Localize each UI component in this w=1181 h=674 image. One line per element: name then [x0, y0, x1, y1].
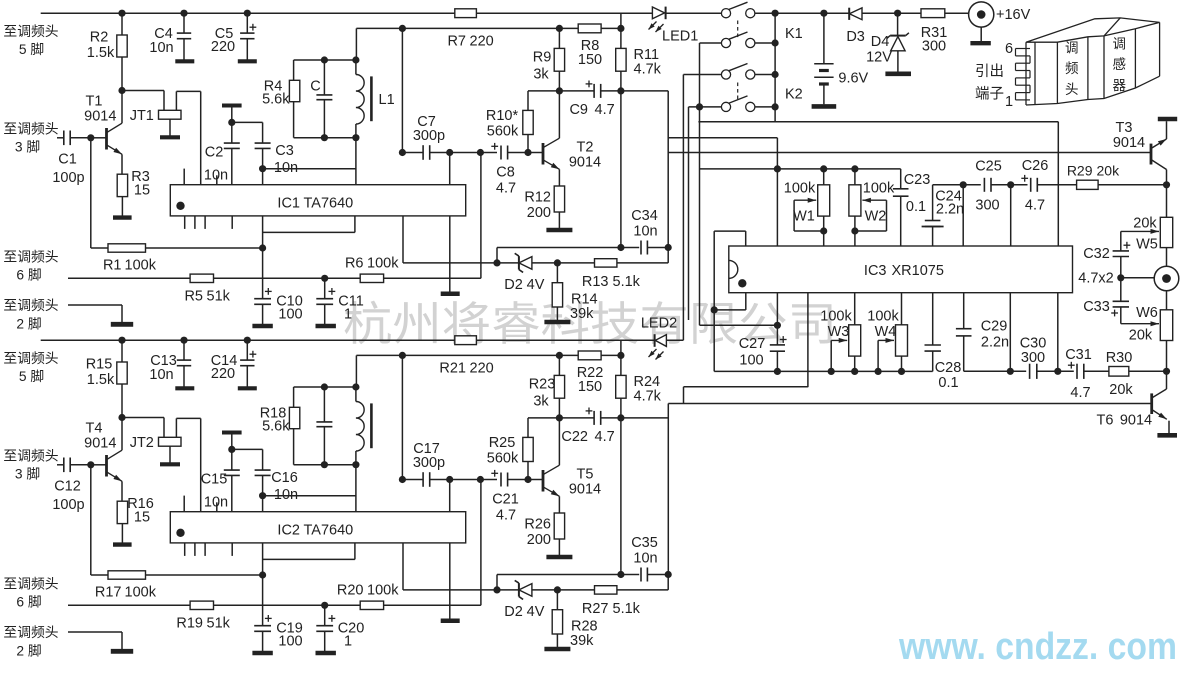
resistor R26 — [554, 513, 564, 539]
svg-text:IC1: IC1 — [277, 195, 300, 211]
junction — [1054, 368, 1061, 375]
junction base T2 — [524, 149, 531, 156]
svg-text:220: 220 — [211, 366, 235, 382]
svg-text:调: 调 — [1065, 41, 1079, 56]
resistor R11 — [620, 13, 622, 28]
junction IF in — [399, 476, 406, 483]
op-amp IC3 — [729, 246, 1073, 293]
svg-text:300p: 300p — [413, 128, 445, 144]
svg-text:5 脚: 5 脚 — [19, 42, 44, 57]
inductor L1 — [355, 60, 357, 75]
resistor R16 — [117, 501, 127, 523]
capacitor C3 — [232, 121, 263, 123]
svg-text:9014: 9014 — [1120, 413, 1152, 429]
svg-text:至调频头: 至调频头 — [3, 577, 58, 592]
svg-text:100k: 100k — [863, 181, 895, 197]
junction collector node — [118, 87, 125, 94]
wire T6 base net — [668, 403, 1151, 405]
wire IC pin left — [263, 231, 355, 233]
junction tank/L1 — [352, 56, 359, 63]
svg-text:300: 300 — [922, 39, 946, 55]
svg-text:L1: L1 — [379, 92, 395, 108]
wire C3 bottom to tank — [263, 168, 357, 170]
junction base node — [87, 134, 94, 141]
svg-text:10n: 10n — [204, 168, 228, 184]
transistor T5 — [528, 479, 543, 481]
transistor T3 — [1158, 117, 1177, 121]
svg-text:39k: 39k — [570, 633, 594, 649]
node output jack — [1121, 277, 1154, 279]
svg-text:C27: C27 — [739, 336, 766, 352]
wire detector out — [620, 91, 622, 248]
wire tank to IC — [355, 465, 357, 512]
junction C25 — [960, 181, 967, 188]
potentiometer W1 — [823, 169, 825, 185]
svg-text:R1: R1 — [103, 258, 122, 274]
junction bus/R — [118, 10, 125, 17]
svg-text:W5: W5 — [1136, 237, 1158, 253]
svg-text:调: 调 — [1113, 37, 1127, 52]
svg-text:R19: R19 — [176, 615, 203, 631]
svg-text:4.7: 4.7 — [496, 180, 516, 196]
svg-text:感: 感 — [1113, 56, 1127, 72]
svg-text:100k: 100k — [367, 256, 399, 272]
capacitor C10 — [254, 298, 271, 300]
capacitor C35 — [496, 575, 498, 590]
diode D4 — [897, 13, 899, 35]
svg-text:R13: R13 — [582, 274, 609, 290]
capacitor C11 — [324, 278, 326, 298]
svg-text:100: 100 — [739, 353, 763, 369]
junction R14 top — [554, 586, 561, 593]
svg-text:R23: R23 — [529, 377, 556, 393]
wire switch rail — [774, 13, 776, 122]
svg-text:R25: R25 — [489, 435, 516, 451]
svg-text:4.7: 4.7 — [595, 102, 615, 118]
svg-text:2.2n: 2.2n — [981, 335, 1009, 351]
LED LED1 — [652, 7, 664, 19]
svg-text:1: 1 — [344, 634, 352, 650]
inductor L2 — [355, 387, 357, 402]
transistor T4 — [91, 464, 107, 466]
svg-text:4.7: 4.7 — [1070, 385, 1090, 401]
wire IC3 bottom signal — [964, 370, 1026, 372]
svg-text:1.5k: 1.5k — [87, 372, 115, 388]
junction R9/C9 — [556, 87, 563, 94]
svg-text:C32: C32 — [1083, 246, 1110, 262]
junction switch row4 — [696, 103, 703, 110]
resistor R10* — [528, 90, 559, 92]
resistor R14 — [556, 263, 558, 283]
svg-text:9014: 9014 — [84, 435, 116, 451]
crystal JT2 — [122, 417, 164, 419]
svg-text:51k: 51k — [207, 288, 231, 304]
svg-text:3k: 3k — [533, 394, 549, 410]
wire row4 feed — [688, 107, 690, 320]
svg-text:560k: 560k — [487, 450, 519, 466]
svg-text:R29: R29 — [1067, 162, 1093, 178]
capacitor C31 — [1076, 364, 1078, 379]
svg-text:T6: T6 — [1097, 413, 1114, 429]
wire detector out — [620, 418, 622, 575]
resistor R30 — [1109, 367, 1129, 377]
op-amp IC2 — [170, 512, 465, 543]
resistor R2 — [121, 13, 123, 35]
junction C3 bottom — [259, 492, 266, 499]
resistor R22 — [578, 351, 601, 360]
junction T3 emitter — [1163, 181, 1170, 188]
svg-text:150: 150 — [578, 52, 602, 68]
svg-text:W3: W3 — [828, 324, 850, 340]
capacitor C14 — [246, 340, 248, 360]
svg-text:15: 15 — [134, 183, 150, 199]
wire stair to IC3 — [622, 417, 669, 419]
battery 9.6V — [820, 10, 827, 17]
capacitor C17 — [402, 479, 423, 481]
svg-text:K2: K2 — [785, 87, 803, 103]
junction D4 — [894, 10, 901, 17]
resistor R4 — [294, 59, 356, 61]
svg-text:20k: 20k — [1129, 328, 1153, 344]
wire pin2 ground — [68, 631, 122, 633]
svg-text:300p: 300p — [413, 455, 445, 471]
svg-text:LED2: LED2 — [641, 315, 677, 331]
svg-text:150: 150 — [578, 379, 602, 395]
svg-text:C2: C2 — [205, 145, 224, 161]
wire bias rail — [356, 354, 578, 356]
svg-text:4.7: 4.7 — [595, 429, 615, 445]
capacitor C16 — [232, 448, 263, 450]
resistor R31 — [921, 9, 945, 18]
capacitor C8 — [500, 146, 502, 160]
svg-text:0.1: 0.1 — [938, 375, 958, 391]
resistor R6 — [214, 277, 361, 279]
svg-text:www. cndzz. com: www. cndzz. com — [898, 626, 1177, 668]
svg-text:5.1k: 5.1k — [613, 601, 641, 617]
svg-text:3 脚: 3 脚 — [15, 467, 40, 482]
svg-text:频: 频 — [1065, 61, 1079, 76]
svg-text:D3: D3 — [846, 29, 865, 45]
junction collector node — [118, 414, 125, 421]
svg-text:R15: R15 — [86, 357, 113, 373]
svg-text:6: 6 — [1005, 41, 1013, 57]
capacitor C26 — [1030, 178, 1032, 192]
svg-text:9014: 9014 — [569, 481, 601, 497]
svg-text:9014: 9014 — [84, 108, 116, 124]
wire net A (switch to IC3 pin) — [698, 121, 1058, 123]
svg-text:100p: 100p — [52, 170, 84, 186]
junction R14 top — [554, 259, 561, 266]
wire tank to rail — [355, 355, 357, 387]
svg-text:C25: C25 — [975, 159, 1002, 175]
capacitor C7 — [402, 152, 423, 154]
svg-text:C21: C21 — [492, 492, 519, 508]
pin stubs IC top — [183, 169, 185, 185]
capacitor C21 — [500, 473, 502, 487]
wire IC pin left — [263, 558, 355, 560]
resistor R9 — [558, 28, 560, 48]
svg-text:C12: C12 — [54, 479, 81, 495]
potentiometer W4 — [901, 293, 903, 325]
junction T6 collector — [1163, 368, 1170, 375]
wire net C (det to T3 base) — [668, 152, 1150, 154]
junction IF in — [399, 149, 406, 156]
svg-text:R10*: R10* — [486, 108, 519, 124]
resistor R23 — [558, 355, 560, 375]
capacitor C9 — [559, 90, 594, 92]
svg-text:C: C — [310, 79, 320, 95]
wire AGC riser — [480, 480, 482, 606]
svg-text:T5: T5 — [577, 467, 594, 483]
junction C11 — [321, 602, 328, 609]
pin stubs IC top — [183, 496, 185, 512]
svg-text:220: 220 — [470, 360, 494, 376]
wire C3 bottom to tank — [263, 495, 357, 497]
junction gnd bracket — [711, 306, 718, 313]
svg-text:100p: 100p — [52, 497, 84, 513]
svg-text:至调频头: 至调频头 — [3, 449, 58, 464]
svg-text:W6: W6 — [1136, 305, 1158, 321]
svg-text:R27: R27 — [582, 601, 609, 617]
junction C11 — [321, 275, 328, 282]
wire W1/W2 top rail — [700, 168, 901, 170]
junction R1/IC — [259, 244, 266, 251]
wire IF pins — [450, 152, 481, 154]
pin stubs IC bottom — [184, 216, 186, 229]
resistor R7 — [455, 9, 477, 18]
svg-text:20k: 20k — [1097, 162, 1121, 178]
svg-text:6 脚: 6 脚 — [16, 268, 41, 283]
wire IF pins — [450, 479, 481, 481]
junction base node — [87, 461, 94, 468]
wire IC pin to det — [402, 543, 404, 590]
svg-text:XR1075: XR1075 — [892, 263, 944, 279]
capacitor C29 — [963, 293, 965, 329]
svg-text:C35: C35 — [631, 535, 658, 551]
capacitor C4 — [183, 13, 185, 33]
capacitor C5 — [246, 13, 248, 33]
svg-text:100: 100 — [278, 307, 302, 323]
transistor T6 — [1166, 371, 1168, 389]
LED LED2 — [654, 334, 656, 347]
svg-text:R30: R30 — [1106, 350, 1133, 366]
capacitor C32 — [1120, 231, 1122, 251]
svg-text:JT2: JT2 — [130, 435, 154, 451]
wire tank to IC — [355, 138, 357, 185]
wire IC pin to C10 — [262, 543, 264, 626]
potentiometer W2 — [854, 169, 856, 185]
potentiometer W5 — [1166, 185, 1168, 218]
potentiometer W3 — [854, 293, 856, 325]
svg-text:R7: R7 — [447, 33, 466, 49]
wire row3 feed — [682, 75, 684, 341]
svg-text:R6: R6 — [345, 256, 364, 272]
capacitor C27 — [776, 293, 778, 345]
junction C32/C33 — [1117, 274, 1124, 281]
diode D3 — [849, 8, 862, 20]
svg-text:R9: R9 — [533, 50, 552, 66]
svg-text:T1: T1 — [86, 94, 103, 110]
node tuner box 调频头/调感器 — [1026, 76, 1160, 105]
svg-text:10n: 10n — [633, 550, 657, 566]
svg-text:R20: R20 — [337, 583, 364, 599]
resistor R1 — [90, 138, 92, 248]
svg-text:3 脚: 3 脚 — [15, 140, 40, 155]
svg-text:C23: C23 — [904, 172, 931, 188]
junction C3 bottom — [259, 165, 266, 172]
junction tank/L1 — [352, 383, 359, 390]
svg-text:R2: R2 — [90, 30, 109, 46]
svg-text:560k: 560k — [487, 123, 519, 139]
svg-text:4.7: 4.7 — [496, 507, 516, 523]
svg-text:1.5k: 1.5k — [87, 45, 115, 61]
wire C27 feed — [700, 324, 778, 326]
svg-text:4.7x2: 4.7x2 — [1078, 270, 1113, 286]
svg-text:100k: 100k — [125, 258, 157, 274]
svg-text:C33: C33 — [1083, 299, 1110, 315]
svg-text:C28: C28 — [935, 360, 962, 376]
junction R1/IC — [259, 571, 266, 578]
junction R9/C9 — [556, 414, 563, 421]
crystal JT1 — [122, 90, 164, 92]
svg-text:51k: 51k — [207, 615, 231, 631]
svg-text:JT1: JT1 — [130, 108, 154, 124]
svg-text:10n: 10n — [204, 495, 228, 511]
diode D2 — [403, 262, 497, 264]
capacitor C25 — [983, 178, 985, 192]
svg-text:C8: C8 — [496, 165, 515, 181]
svg-text:D2: D2 — [504, 604, 523, 620]
svg-text:LED1: LED1 — [662, 28, 698, 44]
capacitor C23 — [900, 169, 902, 189]
wire pin2 ground — [68, 304, 122, 306]
svg-text:C3: C3 — [275, 143, 294, 159]
wire crystal to IC pin — [200, 91, 202, 184]
potentiometer W6 — [1121, 323, 1159, 325]
capacitor C12 — [57, 464, 64, 466]
svg-text:头: 头 — [1065, 82, 1079, 97]
svg-text:15: 15 — [134, 510, 150, 526]
resistor R8 — [578, 24, 601, 33]
svg-text:39k: 39k — [570, 306, 594, 322]
svg-text:10n: 10n — [149, 367, 173, 383]
junction C26 — [1007, 181, 1014, 188]
svg-text:4.7k: 4.7k — [634, 388, 662, 404]
capacitor C13 — [183, 340, 185, 360]
svg-text:至调频头: 至调频头 — [3, 250, 58, 265]
svg-text:12V: 12V — [866, 50, 892, 66]
svg-text:200: 200 — [527, 205, 551, 221]
svg-text:2 脚: 2 脚 — [16, 644, 41, 659]
svg-text:5.6k: 5.6k — [262, 418, 290, 434]
wire row2 feed — [699, 43, 701, 325]
resistor R15 — [121, 340, 123, 362]
svg-text:K1: K1 — [785, 26, 803, 42]
capacitor C24 — [932, 185, 934, 221]
svg-text:C16: C16 — [271, 470, 298, 486]
junction detector node — [617, 414, 624, 421]
capacitor C20 — [324, 605, 326, 625]
svg-text:端子: 端子 — [975, 86, 1004, 103]
svg-text:100k: 100k — [867, 308, 899, 324]
svg-text:R12: R12 — [524, 189, 551, 205]
resistor R20 — [214, 604, 361, 606]
capacitor C2 — [222, 104, 242, 108]
svg-text:至调频头: 至调频头 — [3, 625, 58, 640]
resistor R18 — [294, 386, 356, 388]
junction detector node — [617, 87, 624, 94]
svg-text:C9: C9 — [569, 102, 588, 118]
svg-text:5.1k: 5.1k — [613, 274, 641, 290]
svg-text:R26: R26 — [524, 516, 551, 532]
junction C2 top — [228, 119, 235, 126]
svg-text:D2: D2 — [504, 277, 523, 293]
svg-text:100k: 100k — [125, 585, 157, 601]
junction base T2 — [524, 476, 531, 483]
svg-text:W1: W1 — [793, 208, 815, 224]
node +16V jack — [945, 12, 970, 14]
junction bus/R — [118, 337, 125, 344]
resistor R28 — [556, 590, 558, 610]
resistor R21 — [455, 336, 477, 345]
resistor R5 — [68, 277, 190, 279]
junction rail — [399, 352, 406, 359]
svg-text:220: 220 — [470, 33, 494, 49]
wire IC pin to C10 — [262, 216, 264, 299]
svg-text:9.6V: 9.6V — [838, 70, 868, 86]
svg-text:9014: 9014 — [1113, 135, 1145, 151]
svg-text:至调频头: 至调频头 — [3, 351, 58, 366]
resistor R12 — [554, 186, 564, 212]
resistor R24 — [620, 340, 622, 355]
wire supply bus — [41, 12, 653, 14]
svg-text:C1: C1 — [58, 152, 77, 168]
svg-text:20k: 20k — [1133, 216, 1157, 232]
svg-text:C26: C26 — [1022, 158, 1049, 174]
svg-text:T2: T2 — [577, 140, 594, 156]
switch K1 — [721, 9, 730, 18]
capacitor C15 — [222, 431, 242, 435]
op-amp IC1 — [170, 185, 465, 216]
wire pin risers — [962, 185, 964, 246]
svg-text:引出: 引出 — [975, 63, 1004, 80]
junction C2 top — [228, 446, 235, 453]
svg-text:200: 200 — [527, 532, 551, 548]
svg-text:R21: R21 — [439, 360, 466, 376]
capacitor C33 — [1120, 278, 1122, 302]
svg-text:10n: 10n — [633, 223, 657, 239]
wire IC3 to lower stair — [807, 293, 809, 388]
capacitor tank C — [323, 387, 325, 422]
svg-text:100k: 100k — [820, 308, 852, 324]
junction tank — [321, 56, 328, 63]
svg-text:C31: C31 — [1065, 347, 1092, 363]
svg-text:至调频头: 至调频头 — [3, 298, 58, 313]
svg-text:1: 1 — [1005, 94, 1013, 110]
capacitor C28 — [932, 293, 934, 345]
wire IC pin gnd — [449, 216, 451, 294]
wire IC3 pin1 bracket — [714, 230, 746, 232]
resistor R25 — [528, 417, 559, 419]
svg-text:4V: 4V — [527, 604, 545, 620]
svg-text:1: 1 — [344, 307, 352, 323]
wire net B (det to W rail) — [621, 90, 668, 92]
resistor R19 — [68, 604, 190, 606]
junction — [1007, 368, 1014, 375]
capacitor C19 — [254, 625, 271, 627]
svg-text:300: 300 — [1021, 350, 1045, 366]
svg-text:4.7k: 4.7k — [634, 61, 662, 77]
